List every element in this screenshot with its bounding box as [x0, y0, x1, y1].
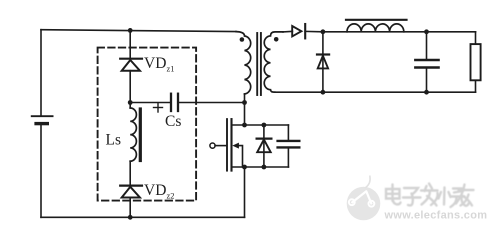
- MOSFET body arrow: [232, 143, 242, 167]
- node bottom rail / VDz2: [128, 215, 133, 220]
- MOSFET gate lead: [215, 145, 227, 147]
- wire source down to bottom rail: [244, 167, 246, 217]
- wire VDz2 to bottom rail: [129, 198, 131, 218]
- node top rail / VDz1 branch: [128, 28, 133, 33]
- wire node A to Cs: [130, 102, 170, 104]
- plus sign of Cs: [154, 103, 163, 112]
- node source: [242, 165, 247, 170]
- transformer core: [257, 33, 261, 95]
- svg-text:z1: z1: [167, 64, 175, 74]
- node freewheel top: [321, 29, 326, 34]
- core bar of Ls: [139, 109, 142, 161]
- wire VDz1 branch down: [129, 30, 131, 58]
- node body diode top: [262, 123, 267, 128]
- dashed box snubber network: [98, 48, 197, 201]
- node filter cap bottom: [424, 90, 429, 95]
- output rectifier diode D1: [292, 24, 305, 38]
- node drain: [242, 123, 247, 128]
- node body diode bottom: [262, 165, 267, 170]
- filter capacitor C: [415, 32, 438, 92]
- battery B: [32, 116, 53, 123]
- node filter cap top: [424, 29, 429, 34]
- svg-text:VD: VD: [144, 55, 166, 72]
- wire bottom rail: [41, 216, 245, 218]
- snubber capacitor across MOSFET: [278, 125, 300, 167]
- wire freewheel branch: [322, 32, 324, 92]
- wire left vertical from battery top: [40, 30, 42, 116]
- capacitor Cs: [171, 94, 178, 111]
- wire Cs to drain node: [179, 102, 244, 104]
- core bar of filter inductor: [346, 19, 407, 21]
- diode VDz2: [120, 186, 142, 198]
- watermark logo circle: [347, 176, 381, 220]
- 子: [403, 188, 421, 205]
- svg-text:Cs: Cs: [165, 113, 181, 130]
- wire secondary top to output diode: [283, 30, 292, 33]
- filter inductor L: [347, 24, 404, 32]
- wire top rail: [41, 30, 236, 32]
- MOSFET Q gate terminal circle: [210, 143, 215, 148]
- wire left vertical below battery: [40, 125, 42, 218]
- wire output top rail: [305, 30, 475, 32]
- MOSFET channel bar: [230, 119, 232, 171]
- MOSFET gate bar: [226, 119, 228, 171]
- inductor Ls: [130, 108, 136, 161]
- load resistor R: [471, 44, 481, 80]
- MOSFET source lead: [232, 166, 289, 168]
- node A: [128, 100, 133, 105]
- diode VDz1: [120, 59, 142, 71]
- transformer T primary winding: [236, 32, 251, 94]
- 电: [386, 185, 401, 205]
- svg-text:Ls: Ls: [106, 132, 122, 149]
- freewheeling diode D2: [317, 55, 329, 69]
- body diode of MOSFET: [257, 125, 272, 167]
- transformer primary polarity dot: [240, 37, 245, 42]
- node B on drain wire: [242, 100, 247, 105]
- wire output right corner down: [475, 32, 477, 44]
- transformer secondary polarity dot: [274, 37, 279, 42]
- svg-text:www.elecfans.com: www.elecfans.com: [384, 210, 488, 222]
- 发: [421, 184, 438, 206]
- wire output bottom rail: [275, 91, 476, 93]
- node freewheel bottom: [321, 90, 326, 95]
- transformer T secondary winding: [264, 32, 283, 92]
- svg-text:VD: VD: [144, 182, 166, 199]
- wire load to bottom: [475, 80, 477, 92]
- wire Ls to VDz2: [129, 161, 131, 185]
- MOSFET drain lead: [232, 124, 289, 126]
- watermark text 电子发烧友 (hand-drawn strokes): [386, 184, 474, 208]
- svg-text:z2: z2: [167, 191, 175, 201]
- 烧: [439, 188, 469, 208]
- wire node A to Ls: [129, 103, 131, 109]
- wire VDz1 to node A: [129, 71, 131, 103]
- wire primary bottom to drain: [244, 94, 246, 125]
- 友: [456, 185, 474, 206]
